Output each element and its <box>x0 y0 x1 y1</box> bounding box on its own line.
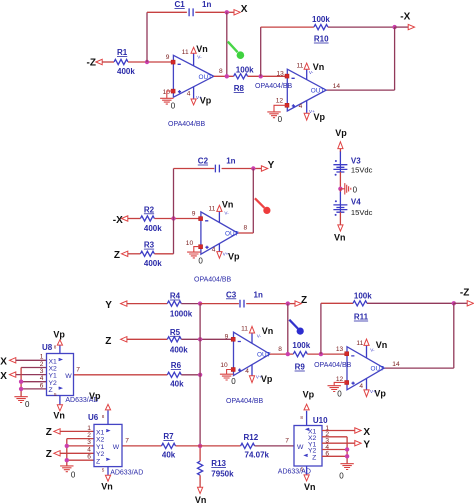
svg-text:4: 4 <box>245 368 249 375</box>
svg-text:Z: Z <box>49 387 53 394</box>
svg-text:Y2: Y2 <box>96 451 105 458</box>
svg-text:U10: U10 <box>313 416 328 425</box>
pin 11 V- supply of U1 (Vn) <box>182 44 208 66</box>
svg-text:V+: V+ <box>370 389 376 394</box>
svg-text:4: 4 <box>87 446 91 453</box>
svg-text:11: 11 <box>209 206 216 213</box>
svg-text:400k: 400k <box>144 224 162 233</box>
global net Vn rail <box>334 225 346 243</box>
port Y input <box>105 300 127 311</box>
wire Z port to U6 pin 1 <box>60 430 94 432</box>
node Y junction <box>251 166 255 170</box>
wire -X port to R2 <box>128 218 141 220</box>
svg-text:V3: V3 <box>351 157 361 166</box>
svg-text:11: 11 <box>297 62 304 69</box>
wire U5 output right <box>384 367 454 369</box>
wire -Z port to R1 <box>102 61 114 63</box>
svg-text:8: 8 <box>244 224 248 231</box>
wire Z port to R3 <box>128 253 141 255</box>
svg-text:4: 4 <box>187 91 191 98</box>
svg-text:X: X <box>0 357 7 368</box>
svg-text:Vn: Vn <box>334 233 346 243</box>
node junction U10 bus pin4 <box>345 447 349 451</box>
wire R6 to bus <box>181 374 200 376</box>
svg-text:X: X <box>241 4 248 15</box>
svg-text:Y1: Y1 <box>49 373 58 380</box>
svg-text:Z: Z <box>46 427 52 438</box>
pin 4 V+ supply of U1 (Vp) <box>187 87 212 106</box>
node junction U6 bus pin3 <box>65 444 69 448</box>
wire feedback left leg up <box>260 27 262 76</box>
svg-text:Z: Z <box>105 336 111 347</box>
node -Z junction <box>452 301 456 305</box>
svg-text:0: 0 <box>25 400 30 409</box>
wire X node down to output row <box>226 12 228 76</box>
wire U10 pin 6 to ground bus <box>322 455 347 457</box>
node junction supply midpoint <box>338 187 342 191</box>
capacitor C3 <box>226 290 263 307</box>
wire U2 output right <box>326 89 394 91</box>
svg-text:0: 0 <box>339 472 344 481</box>
svg-text:1: 1 <box>40 354 44 361</box>
ground at U4 pin 10 <box>220 370 236 386</box>
port X output <box>234 4 248 15</box>
wire V4 to Vn arrow <box>339 212 341 225</box>
multiplier U6 AD633/AD <box>87 413 143 476</box>
wire -X node down to U2 output <box>394 27 396 90</box>
svg-text:0: 0 <box>231 377 236 386</box>
svg-text:1n: 1n <box>202 0 211 9</box>
svg-text:X1: X1 <box>49 358 58 365</box>
wire R1 to op-amp U1 pin 9 <box>128 61 173 63</box>
wire vertical R3 row up through pin9 row to C2 <box>173 169 175 254</box>
svg-text:W: W <box>65 373 72 380</box>
op-amp U1 OPA404/BB <box>163 54 223 128</box>
port Z input <box>114 250 128 261</box>
port X input to U8 pin 1 <box>0 357 16 368</box>
svg-text:7950k: 7950k <box>211 470 234 479</box>
op-amp U3 OPA404/BB <box>186 211 248 284</box>
capacitor C1 <box>175 0 212 16</box>
wire C2 left <box>174 168 215 170</box>
svg-text:OUT: OUT <box>311 88 325 95</box>
ground at U5 pin 12 <box>328 382 346 398</box>
svg-text:Vn: Vn <box>53 410 65 420</box>
wire R4 to bus <box>181 303 200 305</box>
svg-text:Vn: Vn <box>222 200 234 210</box>
svg-text:R3: R3 <box>144 241 155 250</box>
svg-text:V-: V- <box>197 54 202 59</box>
svg-text:1n: 1n <box>226 157 235 166</box>
svg-text:X2: X2 <box>96 437 105 444</box>
wire C1 left <box>147 11 187 13</box>
svg-text:X2: X2 <box>49 366 58 373</box>
svg-text:Z: Z <box>312 454 316 461</box>
svg-text:8: 8 <box>102 414 105 419</box>
svg-text:V-: V- <box>224 210 229 215</box>
probe marker (blue) on Z node <box>289 320 304 335</box>
svg-text:Z: Z <box>114 250 120 261</box>
pin 4 V+ supply of U3 (Vp) <box>212 244 240 262</box>
svg-text:Vn: Vn <box>304 482 316 492</box>
ground at U8 inputs <box>14 397 30 409</box>
ground at U2 pin 12 <box>267 105 285 124</box>
svg-text:9: 9 <box>225 333 229 340</box>
svg-text:Vn: Vn <box>376 340 388 350</box>
svg-text:8: 8 <box>300 415 303 420</box>
wire Z port to R5 <box>127 338 167 340</box>
svg-text:6: 6 <box>40 382 44 389</box>
wire Vp arrow to V3 <box>339 149 341 165</box>
pin 5 V- supply of U10 (Vn) <box>301 466 316 492</box>
svg-text:0: 0 <box>171 102 176 111</box>
svg-text:14: 14 <box>333 83 341 90</box>
svg-text:OPA404/BB: OPA404/BB <box>194 276 232 283</box>
svg-text:Vp: Vp <box>89 391 101 401</box>
svg-text:100k: 100k <box>292 341 310 350</box>
svg-text:11: 11 <box>182 49 189 56</box>
wire R10 to -X node <box>328 26 395 28</box>
wire junction up to C1 row <box>146 12 148 62</box>
svg-text:-Z: -Z <box>460 288 469 299</box>
pin 5 V- supply of U8 (Vn) <box>53 392 65 420</box>
resistor R4 <box>167 292 192 319</box>
wire R11 to -Z node <box>367 302 454 304</box>
svg-text:W: W <box>113 444 120 451</box>
svg-text:400k: 400k <box>144 259 162 268</box>
svg-text:Vp: Vp <box>335 128 347 138</box>
wire Z node down to U4 output row <box>287 304 289 355</box>
svg-text:V+: V+ <box>196 95 202 100</box>
global net Vp rail <box>335 128 347 148</box>
wire C3 left from bus <box>200 303 239 305</box>
svg-text:6: 6 <box>87 454 91 461</box>
pin 5 V- supply of U6 (Vn) <box>101 467 113 492</box>
svg-text:AD633/AD: AD633/AD <box>110 469 143 476</box>
svg-text:15Vdc: 15Vdc <box>351 165 373 174</box>
svg-text:W: W <box>297 444 304 451</box>
svg-text:-Z: -Z <box>87 58 96 69</box>
svg-text:8: 8 <box>54 345 57 350</box>
svg-text:400k: 400k <box>117 67 135 76</box>
svg-text:7: 7 <box>76 367 80 374</box>
svg-text:100k: 100k <box>236 65 254 74</box>
svg-text:Vp: Vp <box>53 329 65 339</box>
svg-text:R13: R13 <box>211 459 226 468</box>
pin 11 V- supply of U5 (Vn) <box>356 339 387 358</box>
node junction U8 bus pin6 <box>19 387 23 391</box>
node junction Z/output <box>286 352 290 356</box>
svg-text:8: 8 <box>219 68 223 75</box>
svg-text:-X: -X <box>113 215 123 226</box>
svg-text:40k: 40k <box>162 451 176 460</box>
battery V4 15Vdc <box>333 198 372 217</box>
wire U8 ground bus vertical <box>20 368 22 397</box>
ground 0 at supply midpoint (sideways) <box>340 183 357 195</box>
svg-text:X1: X1 <box>96 430 105 437</box>
pin 11 V- supply of U2 (Vn) <box>297 62 325 80</box>
svg-text:9: 9 <box>166 54 170 61</box>
resistor R5 <box>167 328 188 355</box>
svg-text:Z: Z <box>96 458 100 465</box>
port X input to U8 pin 3 <box>0 371 16 382</box>
svg-text:11: 11 <box>241 325 248 332</box>
node junction U10 bus pin6 <box>345 454 349 458</box>
resistor R7 <box>162 432 176 460</box>
wire C1 right to X node <box>195 11 234 13</box>
wire Z port to U6 pin 4 <box>60 452 94 454</box>
svg-text:Y: Y <box>105 300 112 311</box>
ground at U1 pin 10 <box>160 91 176 111</box>
svg-text:Y: Y <box>268 160 275 171</box>
svg-text:X: X <box>363 427 370 438</box>
svg-text:Vp: Vp <box>314 112 326 122</box>
wire bus to R12 <box>200 445 241 447</box>
pin 8 V+ supply of U8 (Vp) <box>53 329 65 353</box>
svg-text:R12: R12 <box>244 433 259 442</box>
probe marker (red) on Y node <box>255 198 271 214</box>
pin 4 V+ supply of U2 (Vp) <box>299 101 326 122</box>
svg-text:9: 9 <box>192 211 196 218</box>
port Z output <box>295 295 307 306</box>
wire U6 ground bus vertical <box>66 439 68 466</box>
port Z input (bottom) <box>105 336 127 347</box>
port -Z output <box>454 288 474 306</box>
wire X port to U8 pin 3 <box>16 374 47 376</box>
svg-text:1000k: 1000k <box>170 309 193 318</box>
port -Z input <box>87 58 103 69</box>
wire to R11 <box>321 302 353 304</box>
svg-text:Vp: Vp <box>228 251 240 261</box>
svg-text:C2: C2 <box>198 157 209 166</box>
wire U8 pin 2 to ground bus <box>21 367 46 369</box>
resistor R2 <box>140 205 162 232</box>
svg-text:5: 5 <box>301 467 304 472</box>
resistor R6 <box>167 361 184 388</box>
port Z input to U6 pin 4 <box>46 449 60 460</box>
wire R9 to U5 pin 13 <box>307 353 347 355</box>
node junction R8/R10 feedback <box>259 74 263 78</box>
svg-text:OPA404/BB: OPA404/BB <box>255 83 293 90</box>
wire -Z node down to U5 output <box>453 303 455 368</box>
resistor R10 <box>312 15 330 43</box>
svg-text:12: 12 <box>276 98 284 105</box>
port Y output <box>261 160 274 171</box>
wire Y port to R4 <box>127 303 167 305</box>
resistor R3 <box>140 241 162 268</box>
svg-text:V-: V- <box>370 348 375 353</box>
resistor R9 <box>292 341 310 371</box>
ground at U10 inputs <box>339 464 354 481</box>
port X output from U10 <box>355 427 371 438</box>
wire U10 pin 2 to ground bus <box>322 436 347 438</box>
op-amp U4 OPA404/BB <box>220 332 282 405</box>
svg-text:OPA404/BB: OPA404/BB <box>168 121 206 128</box>
svg-text:400k: 400k <box>170 346 188 355</box>
node junction R5/bus <box>198 337 202 341</box>
svg-text:Y1: Y1 <box>96 444 105 451</box>
port -X input <box>113 215 128 226</box>
wire R2 to U3 pin 9 <box>154 218 201 220</box>
svg-text:5: 5 <box>102 468 105 473</box>
ground at U3 pin 10 <box>187 247 203 266</box>
wire C3 right to Z node <box>246 303 295 305</box>
svg-text:X: X <box>0 371 7 382</box>
svg-text:100k: 100k <box>354 291 372 300</box>
svg-text:-X: -X <box>400 12 410 23</box>
svg-text:R11: R11 <box>354 313 369 322</box>
pin 4 V+ supply of U4 (Vp) <box>245 365 273 384</box>
wire U3 output right <box>238 232 254 234</box>
wire U1 output to R8 <box>214 75 234 77</box>
resistor R1 <box>114 48 135 76</box>
svg-text:R10: R10 <box>314 35 329 44</box>
svg-text:U6: U6 <box>88 413 99 422</box>
port Z input to U6 pin 1 <box>46 427 60 438</box>
svg-text:V-: V- <box>257 334 262 339</box>
wire X port to U8 pin 1 <box>16 359 47 361</box>
svg-text:R9: R9 <box>295 363 306 372</box>
pin 8 V+ supply of U6 (Vp) <box>89 391 111 425</box>
resistor R11 <box>353 291 372 321</box>
svg-text:R6: R6 <box>171 361 182 370</box>
wire summing bus vertical <box>199 304 201 446</box>
svg-text:100k: 100k <box>312 15 330 24</box>
node junction X/output <box>225 74 229 78</box>
global net Vn below R13 <box>195 487 207 504</box>
svg-text:4: 4 <box>212 246 216 253</box>
svg-text:5: 5 <box>54 392 57 397</box>
svg-text:R5: R5 <box>170 328 181 337</box>
svg-text:1n: 1n <box>254 290 263 299</box>
svg-text:Z: Z <box>301 295 307 306</box>
wire R12 to U10 W pin <box>255 445 294 447</box>
node junction R2/R3/C2 <box>171 216 175 220</box>
svg-text:7: 7 <box>285 438 289 445</box>
svg-text:R1: R1 <box>117 48 128 57</box>
svg-text:OUT: OUT <box>257 352 271 359</box>
svg-text:10: 10 <box>220 362 228 369</box>
pin 11 V- supply of U3 (Vn) <box>209 200 234 223</box>
svg-text:Y2: Y2 <box>49 380 58 387</box>
wire C2 right to Y node <box>222 168 262 170</box>
node junction U6 bus pin6 <box>65 458 69 462</box>
pin 11 V- supply of U4 (Vn) <box>241 325 273 343</box>
svg-text:U8: U8 <box>42 343 53 352</box>
wire U6 pin 6 to ground bus <box>67 459 94 461</box>
resistor R8 <box>234 65 255 93</box>
multiplier U10 AD633/AD <box>278 416 330 476</box>
node junction R6/bus <box>198 373 202 377</box>
wire U10 ground bus vertical <box>346 437 348 464</box>
wire U6 pin 3 to ground bus <box>67 445 94 447</box>
node Z junction <box>286 301 290 305</box>
ground at U6 inputs <box>60 466 76 480</box>
svg-text:R2: R2 <box>144 205 155 214</box>
wire R8 to U2 pin 13 <box>248 75 287 77</box>
svg-text:15Vdc: 15Vdc <box>351 208 373 217</box>
svg-text:V+: V+ <box>256 375 262 380</box>
wire U6 pin 2 to ground bus <box>67 438 94 440</box>
node junction R7/R12/bus/R13 <box>198 444 202 448</box>
wire R7 to bus <box>176 445 201 447</box>
svg-text:Vp: Vp <box>374 388 386 398</box>
svg-text:7: 7 <box>125 438 129 445</box>
svg-text:74.07k: 74.07k <box>245 451 270 460</box>
svg-text:8: 8 <box>278 346 282 353</box>
svg-text:2: 2 <box>40 361 44 368</box>
wire bus to R13 <box>199 446 201 461</box>
wire R3 to vertical <box>154 253 173 255</box>
svg-text:OUT: OUT <box>371 366 385 373</box>
op-amp U2 OPA404/BB <box>255 69 340 111</box>
node junction R9/R11 feedback <box>319 352 323 356</box>
node junction U8 bus pin4 <box>19 380 23 384</box>
svg-text:OUT: OUT <box>225 231 239 238</box>
capacitor C2 <box>198 157 236 173</box>
svg-text:Vp: Vp <box>303 390 315 400</box>
svg-text:C3: C3 <box>226 290 237 299</box>
svg-text:4: 4 <box>359 383 363 390</box>
pin 8 V+ supply of U10 (Vp) <box>300 390 314 426</box>
wire V3 to ground node <box>339 172 341 189</box>
svg-text:2: 2 <box>87 432 91 439</box>
svg-text:0: 0 <box>278 115 283 124</box>
svg-text:40k: 40k <box>170 379 184 388</box>
svg-text:R4: R4 <box>170 292 181 301</box>
svg-text:V-: V- <box>309 70 314 75</box>
resistor R13 (vertical) <box>198 459 235 479</box>
wire U10 pin 1 to X port <box>322 430 355 432</box>
resistor R12 <box>241 433 270 460</box>
svg-text:11: 11 <box>356 340 363 347</box>
svg-text:3: 3 <box>40 368 44 375</box>
svg-text:1: 1 <box>87 425 91 432</box>
wire U8 output to R6 <box>74 374 168 376</box>
node -X junction <box>392 25 396 29</box>
wire U10 pin 4 to ground bus <box>322 449 347 451</box>
svg-text:C1: C1 <box>175 0 186 9</box>
svg-text:10: 10 <box>186 240 194 247</box>
svg-text:Vn: Vn <box>195 495 207 504</box>
svg-text:Vn: Vn <box>196 44 208 54</box>
wire U8 pin 4 to ground bus <box>21 381 46 383</box>
svg-text:V+: V+ <box>223 251 229 256</box>
battery V3 15Vdc <box>333 157 372 176</box>
wire R5 through bus to U4 pin 9 <box>181 338 233 340</box>
node X junction <box>225 10 229 14</box>
port -X output <box>395 12 415 30</box>
wire Y node down to U3 output <box>252 169 254 234</box>
svg-text:OPA404/BB: OPA404/BB <box>226 398 264 405</box>
svg-text:Y: Y <box>363 440 370 451</box>
svg-text:4: 4 <box>299 103 303 110</box>
svg-text:0: 0 <box>71 471 76 480</box>
wire U4 output to R9 <box>270 353 293 355</box>
port Y output from U10 <box>355 440 371 451</box>
wire to R10 <box>261 26 314 28</box>
wire feedback left leg up to R11 row <box>320 303 322 354</box>
svg-text:4: 4 <box>40 375 44 382</box>
svg-text:0: 0 <box>337 389 342 398</box>
wire U6 output to R7 <box>122 445 162 447</box>
svg-text:3: 3 <box>87 439 91 446</box>
svg-text:OPA404/BB: OPA404/BB <box>314 362 352 369</box>
probe marker (green) on X node <box>228 42 244 59</box>
svg-text:OUT: OUT <box>199 74 213 81</box>
svg-text:Vn: Vn <box>101 481 113 491</box>
svg-text:R8: R8 <box>234 84 245 93</box>
